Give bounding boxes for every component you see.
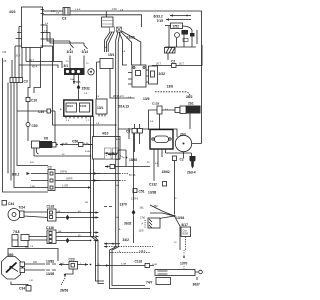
svg-text:3b32: 3b32 — [124, 222, 132, 226]
svg-text:8/8.2: 8/8.2 — [12, 173, 19, 177]
svg-text:15/1: 15/1 — [108, 53, 115, 57]
svg-text:0.8: 0.8 — [51, 10, 55, 13]
svg-text:C34: C34 — [19, 287, 25, 291]
svg-text:OR: OR — [33, 261, 37, 264]
svg-text:6/33.2: 6/33.2 — [154, 15, 163, 19]
svg-text:C132: C132 — [135, 260, 143, 264]
svg-text:8-SB: 8-SB — [85, 151, 90, 153]
svg-text:15/62: 15/62 — [162, 170, 170, 174]
svg-text:C10: C10 — [31, 99, 37, 103]
svg-text:C-R: C-R — [29, 280, 33, 282]
svg-text:13/9-6: 13/9-6 — [131, 198, 139, 201]
svg-text:GR: GR — [57, 211, 61, 213]
svg-text:A-N: A-N — [116, 158, 120, 161]
svg-text:2/52: 2/52 — [173, 25, 180, 29]
svg-text:GR: GR — [58, 231, 62, 233]
svg-text:0B: 0B — [4, 61, 7, 63]
svg-text:14/12: 14/12 — [80, 105, 87, 108]
svg-text:13/1: 13/1 — [97, 106, 104, 110]
svg-text:30.7: 30.7 — [156, 63, 161, 66]
svg-text:7/18: 7/18 — [13, 230, 20, 234]
svg-text:7/15: 7/15 — [157, 19, 164, 23]
svg-text:C3: C3 — [62, 17, 66, 21]
svg-text:36/53: 36/53 — [60, 289, 68, 293]
svg-text:C132: C132 — [149, 183, 157, 187]
svg-text:GR-W: GR-W — [60, 171, 68, 174]
svg-text:36/2: 36/2 — [186, 95, 193, 99]
svg-text:7-6B: 7-6B — [30, 186, 35, 188]
svg-text:4/10: 4/10 — [102, 132, 109, 136]
svg-text:C50: C50 — [32, 124, 38, 128]
svg-text:9-GR: 9-GR — [121, 264, 127, 266]
svg-text:0.5B: 0.5B — [63, 143, 68, 145]
svg-text:13/34: 13/34 — [176, 216, 184, 220]
svg-text:EGR: EGR — [183, 232, 189, 236]
svg-text:5/14,13: 5/14,13 — [118, 105, 129, 109]
svg-text:40-4: 40-4 — [32, 66, 38, 69]
svg-text:B-R: B-R — [30, 162, 34, 164]
svg-text:3/13: 3/13 — [67, 50, 74, 54]
svg-text:1370: 1370 — [180, 262, 188, 266]
svg-text:17b1: 17b1 — [140, 217, 146, 220]
svg-text:C132: C132 — [47, 205, 55, 209]
svg-text:C34: C34 — [8, 202, 14, 206]
svg-text:C2: C2 — [48, 166, 52, 170]
svg-text:1370: 1370 — [120, 203, 128, 207]
svg-text:2/32: 2/32 — [159, 72, 166, 76]
svg-text:3/14: 3/14 — [82, 50, 89, 54]
svg-text:1.5A: 1.5A — [112, 8, 117, 11]
svg-text:4/23: 4/23 — [9, 10, 16, 14]
svg-text:13/9: 13/9 — [143, 97, 150, 101]
svg-text:GR-R: GR-R — [66, 178, 73, 181]
svg-text:C3: C3 — [24, 80, 28, 84]
svg-text:C2: C2 — [180, 158, 184, 162]
svg-text:N-A: N-A — [70, 78, 74, 81]
svg-text:2b1: 2b1 — [188, 102, 194, 106]
svg-text:0.5B: 0.5B — [84, 143, 89, 145]
svg-text:3/1: 3/1 — [64, 64, 69, 68]
svg-text:C136: C136 — [46, 226, 54, 230]
svg-text:87-16: 87-16 — [129, 174, 136, 177]
svg-text:15/32: 15/32 — [82, 87, 90, 91]
svg-text:L-GR: L-GR — [62, 185, 68, 188]
svg-text:3637: 3637 — [193, 283, 201, 287]
svg-text:C38: C38 — [2, 52, 7, 54]
svg-text:OR: OR — [25, 246, 29, 249]
svg-text:34/2: 34/2 — [123, 238, 130, 242]
svg-text:136-6: 136-6 — [139, 250, 146, 253]
svg-text:5-SB: 5-SB — [152, 264, 157, 266]
svg-text:74/7: 74/7 — [146, 281, 153, 285]
svg-text:C2: C2 — [171, 60, 175, 64]
svg-text:C132: C132 — [152, 102, 160, 106]
svg-text:2b3-4: 2b3-4 — [187, 171, 196, 175]
svg-text:8/17: 8/17 — [182, 223, 189, 227]
svg-text:C51: C51 — [139, 190, 145, 194]
svg-text:26/18.2-3: 26/18.2-3 — [113, 95, 124, 98]
svg-text:A-R: A-R — [116, 138, 120, 141]
svg-text:14/13: 14/13 — [67, 105, 74, 108]
svg-text:6-R: 6-R — [60, 263, 64, 265]
svg-text:30.7: 30.7 — [179, 63, 184, 66]
svg-text:C3: C3 — [126, 130, 130, 134]
svg-text:13/28: 13/28 — [46, 272, 54, 276]
svg-text:7/6: 7/6 — [44, 137, 49, 141]
svg-text:13/36: 13/36 — [127, 36, 135, 40]
svg-text:13/38: 13/38 — [148, 191, 156, 195]
svg-text:13/9: 13/9 — [139, 230, 144, 233]
svg-text:13/82: 13/82 — [46, 260, 54, 264]
svg-text:13/8: 13/8 — [167, 85, 174, 89]
svg-text:30.4: 30.4 — [16, 56, 21, 58]
svg-text:3b1: 3b1 — [140, 207, 145, 210]
svg-text:C23: C23 — [69, 258, 75, 262]
svg-text:0.8-R: 0.8-R — [75, 9, 81, 11]
svg-text:C56: C56 — [72, 140, 78, 144]
svg-text:7/24: 7/24 — [19, 206, 26, 210]
